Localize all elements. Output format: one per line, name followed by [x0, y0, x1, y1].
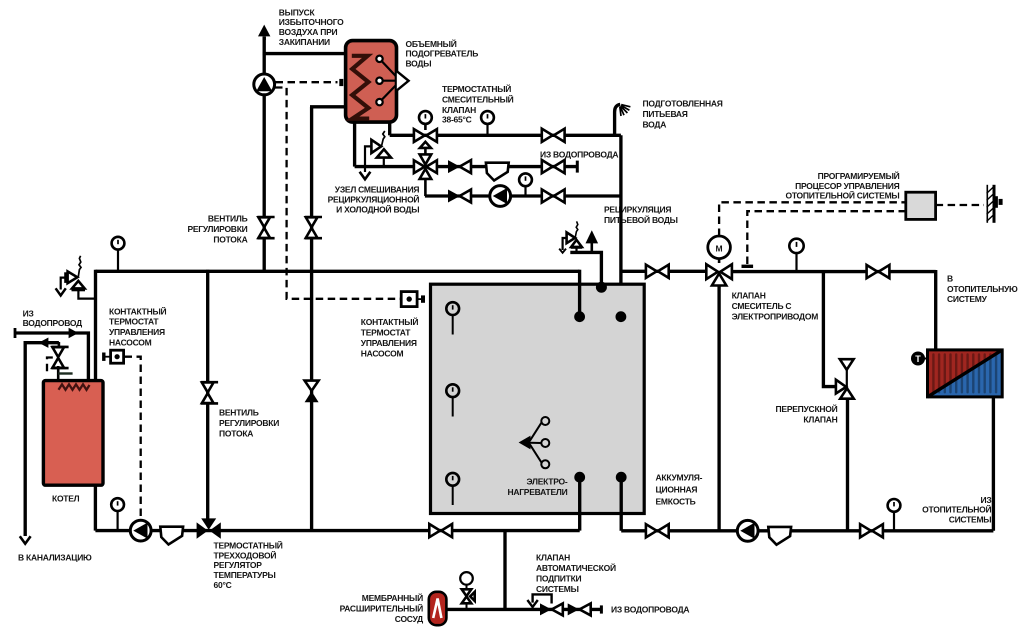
wire: supply corner down to radiator: [934, 270, 937, 350]
svg-text:ИЗ ВОДОПРОВОДА: ИЗ ВОДОПРОВОДА: [611, 605, 689, 615]
label: accumulator tank: [656, 472, 703, 506]
svg-text:ТЕРМОСТАТ: ТЕРМОСТАТ: [361, 327, 411, 337]
svg-text:АККУМУЛЯ-: АККУМУЛЯ-: [656, 472, 703, 482]
cross mixing valve on row2: [414, 148, 437, 196]
boiler drain line with arrow: [20, 338, 59, 544]
svg-text:ЭЛЕКТРОПРИВОДОМ: ЭЛЕКТРОПРИВОДОМ: [732, 311, 819, 321]
tank port D (bottom left): [574, 472, 585, 531]
contact thermostat 2 (upper, near storage tank): [401, 292, 423, 307]
strainer row2: [486, 163, 509, 181]
svg-text:СИСТЕМЫ: СИСТЕМЫ: [949, 514, 992, 524]
check valve row2: [448, 160, 471, 173]
svg-text:60°С: 60°С: [214, 580, 232, 590]
wire: supply line to heating system: [732, 270, 936, 273]
label: mixing unit: [328, 185, 420, 215]
air vent arrow: [258, 25, 270, 40]
svg-text:КЛАПАН: КЛАПАН: [732, 290, 766, 300]
flow valve on cold feed column: [305, 217, 322, 238]
svg-text:СИСТЕМЫ: СИСТЕМЫ: [536, 584, 579, 594]
svg-text:МЕМБРАННЫЙ: МЕМБРАННЫЙ: [362, 592, 423, 603]
makeup check valve 2: [568, 603, 591, 615]
svg-text:СМЕСИТЕЛЬНЫЙ: СМЕСИТЕЛЬНЫЙ: [442, 93, 514, 104]
label: contact thermostat 2: [361, 316, 419, 359]
radiator T sensor: [911, 352, 928, 366]
wire: column to storage tank port C: [619, 135, 622, 316]
thermostatic mixing valve (3-way) on row1: [414, 111, 437, 148]
row2 end cap: [576, 161, 579, 173]
dashed control line thermostat1 to pump3: [125, 357, 141, 519]
svg-text:ТЕМПЕРАТУРЫ: ТЕМПЕРАТУРЫ: [214, 570, 276, 580]
label: contact thermostat 1: [109, 305, 167, 347]
radiator: [928, 350, 1003, 397]
svg-text:ИЗ ВОДОПРОВОДА: ИЗ ВОДОПРОВОДА: [540, 149, 618, 159]
svg-text:СИСТЕМУ: СИСТЕМУ: [947, 294, 988, 304]
svg-text:ЭЛЕКТРО-: ЭЛЕКТРО-: [527, 477, 568, 487]
check valve row3: [448, 190, 471, 203]
svg-text:РЕГУЛИРОВКИ: РЕГУЛИРОВКИ: [219, 418, 279, 428]
dashed control line pump to tank sensor: [276, 79, 342, 86]
svg-text:КЛАПАН: КЛАПАН: [803, 415, 837, 425]
electrode probes in DHW tank: [376, 56, 408, 106]
pressure gauge on header left: [112, 237, 125, 271]
label: flow valve 1: [187, 213, 247, 244]
svg-text:ВОДА: ВОДА: [643, 120, 667, 130]
makeup line end cap: [600, 605, 603, 613]
wire: return from radiator: [992, 396, 995, 531]
svg-text:СМЕСИТЕЛЬ С: СМЕСИТЕЛЬ С: [732, 301, 792, 311]
svg-text:ОТОПИТЕЛЬНУЮ: ОТОПИТЕЛЬНУЮ: [947, 284, 1018, 294]
wire: row2 cold water line: [355, 165, 578, 168]
svg-text:38-65°С: 38-65°С: [442, 115, 472, 125]
tank port B with dot on edge: [570, 252, 607, 292]
svg-text:ЦИОННАЯ: ЦИОННАЯ: [656, 484, 698, 494]
wire: tank right outlet down: [388, 121, 391, 135]
svg-text:В: В: [947, 274, 953, 284]
wire: cold feed column x=311: [310, 107, 313, 531]
svg-text:М: М: [716, 244, 723, 254]
label: thermostatic 3-way regulator: [214, 540, 283, 590]
svg-text:И ХОЛОДНОЙ ВОДЫ: И ХОЛОДНОЙ ВОДЫ: [336, 203, 419, 214]
shower riser and spray head: [615, 104, 631, 135]
wire: bottom header right segment: [621, 529, 993, 532]
label: v otopitelnuyu sistemu: [947, 274, 1018, 305]
tank port A (top left): [574, 270, 585, 322]
DHW storage water heater vessel: [346, 41, 397, 123]
wire: header drop to boiler: [94, 270, 97, 381]
pump P4 heating circuit (points left): [737, 520, 758, 541]
label: podgotovlennaya voda: [643, 99, 723, 130]
storage buffer tank: [431, 284, 645, 513]
svg-text:КОНТАКТНЫЙ: КОНТАКТНЫЙ: [109, 305, 167, 316]
strainer boiler circuit: [160, 527, 183, 545]
wire: bypass down to bottom header: [846, 399, 849, 531]
tank relief valve: [559, 221, 582, 252]
wire: main header: [96, 270, 580, 273]
svg-text:ПРОГРАМИРУЕМЫЙ: ПРОГРАМИРУЕМЫЙ: [818, 170, 900, 181]
svg-text:ВОДЫ: ВОДЫ: [406, 58, 432, 68]
dashed: M valve to processor: [719, 202, 906, 236]
gate valve row3: [542, 189, 565, 202]
svg-text:ПИТЬЕВОЙ ВОДЫ: ПИТЬЕВОЙ ВОДЫ: [604, 214, 678, 225]
gate valve bottom right 1: [646, 524, 669, 537]
svg-text:ПОТОКА: ПОТОКА: [213, 234, 247, 244]
pressure gauge boiler outlet: [111, 498, 124, 530]
svg-text:УЗЕЛ СМЕШИВАНИЯ: УЗЕЛ СМЕШИВАНИЯ: [335, 185, 420, 195]
gate valve row1: [542, 129, 565, 142]
label: electric heaters: [507, 477, 567, 498]
svg-text:ТЕРМОСТАТ: ТЕРМОСТАТ: [109, 317, 159, 327]
tank port E (bottom right): [616, 472, 627, 531]
svg-text:ЗАКИПАНИИ: ЗАКИПАНИИ: [279, 37, 330, 47]
vertical check valve on column x=311: [305, 381, 319, 403]
boiler fill line with arrow: [15, 328, 88, 381]
tank air vent arrow: [586, 230, 599, 253]
svg-text:НАСОСОМ: НАСОСОМ: [361, 348, 404, 358]
svg-text:УПРАВЛЕНИЯ: УПРАВЛЕНИЯ: [361, 338, 417, 348]
pump P3 boiler circuit (points left): [130, 520, 151, 541]
svg-text:ИЗБЫТОЧНОГО: ИЗБЫТОЧНОГО: [279, 17, 344, 27]
label: makeup valve: [536, 553, 616, 595]
svg-text:СОСУД: СОСУД: [395, 614, 423, 624]
label: membrane vessel: [340, 592, 424, 624]
gate valve bottom right 2: [860, 524, 883, 537]
membrane expansion vessel: [429, 592, 447, 625]
svg-text:ОТОПИТЕЛЬНОЙ: ОТОПИТЕЛЬНОЙ: [922, 504, 991, 515]
tank thermometer 2: [446, 384, 459, 416]
flow control valve 2: [201, 382, 218, 403]
svg-text:ВЕНТИЛЬ: ВЕНТИЛЬ: [219, 408, 259, 418]
wire: row1 hot water line: [390, 134, 621, 137]
gate valve row2: [542, 160, 565, 173]
svg-text:ПРОЦЕСОР УПРАВЛЕНИЯ: ПРОЦЕСОР УПРАВЛЕНИЯ: [795, 181, 899, 191]
svg-text:ПИТЬЕВАЯ: ПИТЬЕВАЯ: [643, 109, 688, 119]
svg-text:ИЗ: ИЗ: [23, 308, 34, 318]
programmable processor box: [906, 192, 936, 219]
svg-text:АВТОМАТИЧЕСКОЙ: АВТОМАТИЧЕСКОЙ: [536, 562, 616, 573]
svg-text:КОНТАКТНЫЙ: КОНТАКТНЫЙ: [361, 316, 419, 327]
label: mixing valve with actuator: [732, 290, 819, 321]
svg-text:РЕЦИРКУЛЯЦИЯ: РЕЦИРКУЛЯЦИЯ: [604, 205, 671, 215]
label: iz otopitelnoy sistemy: [922, 495, 991, 525]
tank thermometer 1: [446, 302, 459, 334]
svg-text:КОТЕЛ: КОТЕЛ: [52, 494, 80, 504]
pump P1 (air separator pump, points up): [254, 74, 275, 95]
svg-text:ТЕРМОСТАТНЫЙ: ТЕРМОСТАТНЫЙ: [214, 540, 283, 551]
relief valve at DHW tank outlet: [360, 131, 391, 179]
wire: row3 recirculation line: [425, 194, 621, 197]
wire: header right segment: [621, 270, 707, 273]
wire: DHW tank lower left inlet: [310, 105, 346, 108]
boiler vessel: [43, 381, 103, 486]
gate valve below tank left: [429, 524, 452, 537]
thermometer row3: [519, 173, 532, 196]
contact thermostat 1 (boiler): [104, 350, 124, 363]
heating element zigzag in boiler: [59, 384, 90, 389]
svg-text:РАСШИРИТЕЛЬНЫЙ: РАСШИРИТЕЛЬНЫЙ: [340, 602, 424, 613]
label: vypusk vozdukha: [279, 7, 344, 46]
svg-text:ПЕРЕПУСКНОЙ: ПЕРЕПУСКНОЙ: [776, 403, 838, 414]
svg-text:ТЕРМОСТАТНЫЙ: ТЕРМОСТАТНЫЙ: [442, 83, 511, 94]
wire: motor valve stem down to bottom header: [717, 286, 720, 531]
svg-text:ОТОПИТЕЛЬНОЙ СИСТЕМЫ: ОТОПИТЕЛЬНОЙ СИСТЕМЫ: [785, 190, 899, 201]
svg-text:ВОДОПРОВОД: ВОДОПРОВОД: [23, 318, 83, 328]
dashed control line pump to thermostat2: [275, 88, 400, 299]
thermostatic 3-way regulator 60C (filled): [197, 518, 221, 538]
heating coil inside DHW tank: [352, 56, 369, 119]
wire: drop from bottom header to makeup line: [503, 531, 506, 610]
outdoor wall sensor: [987, 185, 1003, 223]
tank port C dot: [616, 311, 627, 322]
dashed: processor to outdoor sensor: [936, 204, 984, 206]
svg-text:УПРАВЛЕНИЯ: УПРАВЛЕНИЯ: [109, 327, 165, 337]
strainer heating circuit: [768, 527, 791, 545]
svg-text:ВОЗДУХА ПРИ: ВОЗДУХА ПРИ: [279, 27, 338, 37]
svg-text:Т: Т: [915, 354, 921, 364]
boiler drain needle valve: [47, 342, 73, 381]
wire: bottom header left segment: [95, 529, 579, 532]
motorized mixing valve M: [706, 236, 732, 286]
svg-text:НАГРЕВАТЕЛИ: НАГРЕВАТЕЛИ: [507, 487, 567, 497]
pump P2 recirculation (points left): [490, 186, 511, 207]
tank thermometer 3: [446, 473, 459, 505]
svg-text:ОБЪЕМНЫЙ: ОБЪЕМНЫЙ: [406, 38, 457, 49]
wire: boiler outlet down: [94, 484, 97, 531]
svg-text:КЛАПАН: КЛАПАН: [442, 105, 476, 115]
label: flow valve 2: [219, 408, 279, 439]
thermometer on row1 right: [481, 111, 494, 135]
wire: makeup line: [446, 608, 601, 611]
svg-text:ИЗ: ИЗ: [980, 495, 991, 505]
label: processor: [785, 170, 899, 201]
supply thermometer: [789, 239, 803, 272]
return thermometer: [888, 499, 901, 531]
svg-text:РЕЦИРКУЛЯЦИОННОЙ: РЕЦИРКУЛЯЦИОННОЙ: [328, 193, 420, 204]
flow control valve 1 (on left riser): [257, 217, 274, 238]
bypass line from supply: [823, 270, 837, 387]
wire: tank left outlet down: [353, 121, 356, 167]
svg-text:ВЕНТИЛЬ: ВЕНТИЛЬ: [208, 213, 248, 223]
wire: DHW tank top feed: [263, 52, 346, 55]
gate valve supply: [867, 265, 890, 278]
label: bypass valve: [776, 403, 838, 425]
automatic makeup pressure reducer: [527, 594, 551, 607]
svg-text:ПОДОГРЕВАТЕЛЬ: ПОДОГРЕВАТЕЛЬ: [406, 49, 479, 59]
svg-text:В КАНАЛИЗАЦИЮ: В КАНАЛИЗАЦИЮ: [18, 552, 92, 562]
svg-text:ВЫПУСК: ВЫПУСК: [279, 7, 316, 17]
svg-text:КЛАПАН: КЛАПАН: [536, 553, 570, 563]
svg-text:РЕГУЛЯТОР: РЕГУЛЯТОР: [214, 560, 263, 570]
svg-text:ПОТОКА: ПОТОКА: [219, 429, 253, 439]
svg-text:РЕГУЛИРОВКИ: РЕГУЛИРОВКИ: [187, 224, 247, 234]
dashed: supply sensor to processor: [742, 211, 906, 266]
electric heaters symbol: [519, 417, 550, 468]
svg-text:ТРЕХХОДОВОЙ: ТРЕХХОДОВОЙ: [214, 549, 277, 560]
svg-text:ЕМКОСТЬ: ЕМКОСТЬ: [656, 496, 696, 506]
svg-text:ПОДПИТКИ: ПОДПИТКИ: [536, 574, 582, 584]
wire: left riser: [263, 37, 266, 271]
makeup safety valve with gauge: [460, 572, 475, 609]
bypass overflow valve: [836, 359, 854, 399]
makeup check valve 1: [540, 603, 563, 615]
svg-text:НАСОСОМ: НАСОСОМ: [109, 337, 152, 347]
gate valve header right: [646, 265, 669, 278]
svg-text:ПОДГОТОВЛЕННАЯ: ПОДГОТОВЛЕННАЯ: [643, 99, 723, 109]
boiler safety relief valve: [56, 256, 96, 299]
label: recirculation: [604, 205, 678, 226]
wire: column x=207.7 (boiler loop): [206, 270, 209, 520]
label: thermostatic mixing valve: [442, 83, 514, 125]
label: iz vodoprovod (left): [23, 308, 83, 328]
label: volume water heater: [406, 38, 479, 69]
